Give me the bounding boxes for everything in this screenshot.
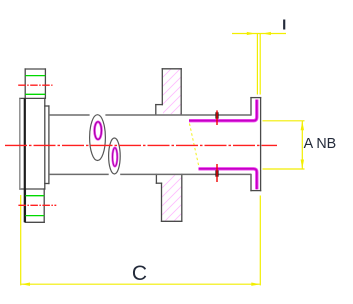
svg-text:I: I (282, 17, 286, 34)
svg-text:A NB: A NB (304, 136, 337, 152)
svg-text:C: C (132, 262, 147, 285)
